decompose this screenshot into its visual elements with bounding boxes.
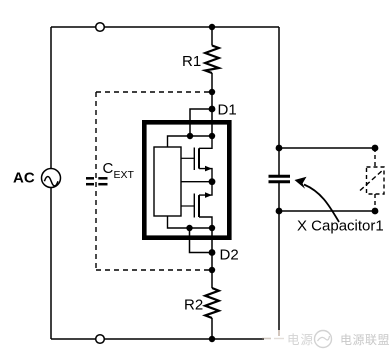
wire: R1 top lead <box>211 27 213 46</box>
node: internal bottom right <box>209 225 215 231</box>
svg-text:电源联盟: 电源联盟 <box>340 333 390 347</box>
wire: top branch to varistor <box>279 147 375 149</box>
svg-text:EXT: EXT <box>114 169 135 181</box>
IC package U1 thick box <box>144 122 229 237</box>
wire: bottom rail <box>51 338 279 340</box>
label C_EXT <box>103 160 135 181</box>
varistor RV1 (dashed optional) <box>360 148 384 211</box>
AC source V1 <box>42 169 61 188</box>
wire: internal top bus <box>168 136 213 147</box>
transistor Q1 upper NMOS <box>194 136 212 182</box>
svg-text:C: C <box>103 160 114 177</box>
wire: left rail upper <box>50 27 52 169</box>
wire: gate Q2 <box>181 205 194 207</box>
terminal: open node bottom <box>96 335 105 344</box>
watermark overlay <box>262 330 392 359</box>
transistor Q2 lower NMOS <box>194 182 212 228</box>
annotation arrow to X capacitor <box>295 177 340 222</box>
svg-text:R2: R2 <box>184 297 203 314</box>
node: varistor top <box>372 145 379 152</box>
resistor R2 <box>205 288 219 318</box>
node D2 <box>209 249 216 256</box>
svg-text:D2: D2 <box>220 247 239 264</box>
svg-text:X Capacitor1: X Capacitor1 <box>297 218 384 235</box>
wire: internal bottom bus <box>168 216 213 228</box>
wire: right rail lower <box>278 183 280 339</box>
svg-text:R1: R1 <box>182 53 201 70</box>
node D1 <box>209 106 216 113</box>
wire: Q2 drain to R2 <box>211 228 213 288</box>
svg-text:D1: D1 <box>218 102 237 119</box>
wire: top rail <box>51 26 279 28</box>
wire: bottom branch to varistor <box>279 210 375 212</box>
node: internal top left <box>187 133 193 139</box>
capacitor X C1 plates <box>269 176 291 182</box>
capacitor C_EXT (dashed) <box>86 178 108 184</box>
terminal: open node top <box>96 23 105 32</box>
resistor R1 <box>205 46 219 74</box>
dashed package boundary <box>96 92 212 270</box>
node: bottom rail / R2 junction <box>209 336 215 342</box>
wire: mid source bus from control <box>181 181 212 183</box>
node: top rail / R1 junction <box>209 24 215 30</box>
node: dashed boundary crossing top <box>209 89 215 95</box>
wire: D2 branch jog from control <box>190 228 213 253</box>
wire: R2 bottom lead <box>211 318 213 339</box>
wire: left rail lower <box>50 188 52 340</box>
wire: R1 bottom lead into IC <box>211 73 213 136</box>
node: internal bottom left <box>186 225 192 231</box>
node: X cap bottom junction <box>276 208 283 215</box>
control block <box>154 147 181 216</box>
wire: right rail upper <box>278 27 280 175</box>
node: dashed boundary crossing bottom <box>209 267 215 273</box>
svg-text:电源: 电源 <box>287 333 314 347</box>
node: varistor bottom <box>372 208 379 215</box>
svg-text:AC: AC <box>13 170 35 187</box>
wire: gate Q1 <box>181 157 194 159</box>
node: Q1/Q2 common source <box>209 178 216 185</box>
node: internal top right <box>209 133 215 139</box>
wire: D1 branch jog to control <box>190 109 212 136</box>
node: X cap top junction <box>276 145 283 152</box>
